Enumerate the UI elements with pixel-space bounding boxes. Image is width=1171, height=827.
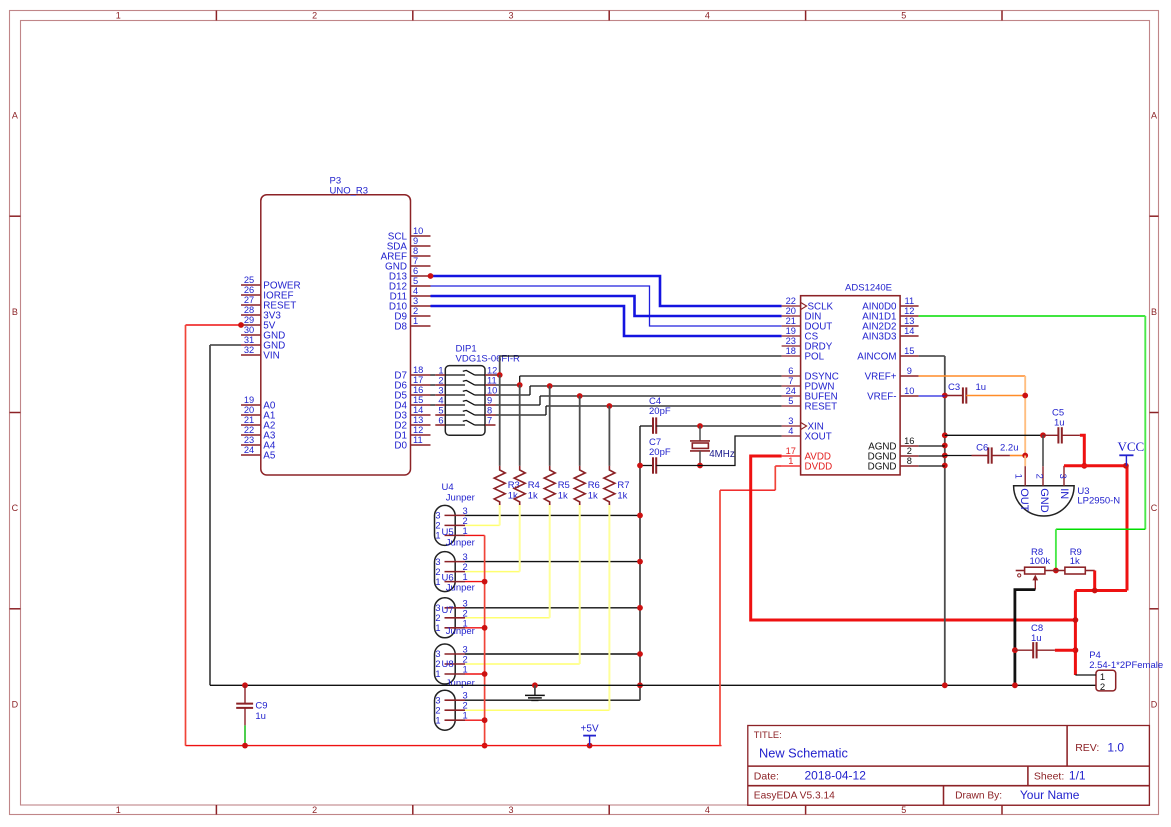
pin 25 POWER of P3	[241, 275, 301, 291]
svg-text:1.0: 1.0	[1107, 741, 1124, 755]
svg-text:1: 1	[435, 623, 440, 633]
pin 16 D5 of P3	[394, 385, 430, 401]
wire C6 to VREF+ rail (orange)	[1010, 455, 1025, 457]
svg-text:15: 15	[904, 346, 914, 356]
capacitor C7 20pF	[640, 437, 700, 474]
wire C3 to VREF+ rail (orange)	[966, 395, 1025, 397]
DIP switch DIP1 VDG1S-06FI-R body	[445, 343, 520, 435]
svg-text:2.2u: 2.2u	[1000, 443, 1019, 454]
svg-text:1k: 1k	[617, 491, 627, 502]
resistor R6 1k	[574, 396, 600, 506]
wire VREF- (blue)	[919, 395, 945, 397]
wire DIP1.10 to PDWN	[496, 386, 782, 395]
node C3 right junction	[1022, 393, 1028, 399]
svg-text:4: 4	[438, 396, 443, 406]
svg-text:D: D	[12, 700, 19, 710]
pin 15 AINCOM of U2	[857, 346, 918, 362]
node ground tap	[532, 682, 538, 688]
node 5V pin junction	[238, 322, 244, 328]
svg-text:Drawn By:: Drawn By:	[955, 791, 1002, 802]
pin 13 AIN2D2 of U2	[862, 316, 918, 332]
jumper U4 Junper	[435, 482, 475, 545]
wire U3 GND pin	[1042, 435, 1044, 466]
svg-text:2: 2	[907, 446, 912, 456]
wire GND vertical rail	[639, 426, 641, 700]
svg-text:20: 20	[244, 405, 254, 415]
svg-text:8: 8	[413, 246, 418, 256]
svg-text:8: 8	[907, 456, 912, 466]
resistor R5 1k	[544, 386, 570, 506]
svg-text:9: 9	[413, 236, 418, 246]
svg-text:LP2950-N: LP2950-N	[1077, 496, 1120, 507]
wire U6.2 to R5 (yellow)	[465, 505, 550, 618]
pin 26 IOREF of P3	[241, 285, 293, 301]
node R7 tap	[607, 403, 613, 409]
node wiper to GND bus	[1012, 682, 1018, 688]
svg-text:Junper: Junper	[446, 583, 475, 594]
svg-text:11: 11	[487, 376, 497, 386]
capacitor C4 20pF	[640, 396, 671, 434]
wire C4 to XIN	[656, 425, 781, 427]
resistor R4 1k	[514, 385, 540, 506]
node R6 tap	[577, 393, 583, 399]
wire U4.3 to GND rail	[465, 514, 640, 516]
svg-text:1: 1	[413, 316, 418, 326]
svg-text:2: 2	[463, 655, 468, 665]
ground symbol	[525, 685, 545, 700]
svg-text:C9: C9	[255, 701, 267, 712]
svg-text:2: 2	[312, 805, 317, 815]
svg-text:3: 3	[1058, 474, 1068, 479]
DIP1 switch pole 2-11	[430, 376, 496, 386]
wire U8.2 to R7 (yellow)	[465, 505, 609, 710]
svg-text:VCC: VCC	[1118, 439, 1145, 454]
svg-text:100k: 100k	[1030, 556, 1051, 567]
connector P4 2.54-1*2PFemale	[1089, 650, 1163, 693]
node +5V tap	[587, 743, 593, 749]
svg-text:A: A	[12, 111, 18, 121]
svg-text:3: 3	[463, 598, 468, 608]
pin 4 XOUT of U2	[782, 426, 832, 442]
svg-text:VREF+: VREF+	[865, 371, 897, 382]
svg-text:3: 3	[463, 552, 468, 562]
svg-text:10: 10	[413, 226, 423, 236]
svg-text:14: 14	[904, 326, 914, 336]
svg-text:3: 3	[435, 695, 440, 705]
wire C8 to VCC rail (thick red)	[1055, 649, 1076, 652]
capacitor C8 1u	[1015, 623, 1055, 658]
svg-text:4: 4	[705, 11, 710, 21]
node AVDD bus junction	[1073, 617, 1079, 623]
wire DGND2 to rail	[919, 455, 945, 457]
pin 18 POL of U2	[782, 346, 825, 362]
svg-text:26: 26	[244, 285, 254, 295]
svg-text:1u: 1u	[1031, 633, 1042, 644]
svg-text:15: 15	[413, 395, 423, 405]
node C8 left junction	[1012, 647, 1018, 653]
svg-text:R5: R5	[558, 480, 570, 491]
wire U5.2 to R4 (yellow)	[465, 505, 520, 572]
svg-text:DGND: DGND	[868, 461, 897, 472]
wire D11 to DIN (blue)	[431, 296, 782, 316]
svg-text:9: 9	[907, 366, 912, 376]
power symbol VCC	[1118, 439, 1145, 466]
svg-text:UNO_R3: UNO_R3	[330, 185, 369, 196]
DIP1 switch pole 3-10	[430, 386, 497, 396]
wire DIP1.8 to RESET	[496, 406, 782, 415]
svg-text:30: 30	[244, 325, 254, 335]
pin 30 GND of P3	[241, 325, 285, 341]
svg-text:1: 1	[788, 456, 793, 466]
svg-text:DVDD: DVDD	[805, 461, 833, 472]
node D13 junction	[428, 273, 434, 279]
wire R9 to VCC bus (thick red)	[1093, 571, 1096, 591]
svg-text:1: 1	[1014, 474, 1024, 479]
wire U4.2 to R3 (yellow)	[465, 505, 500, 525]
wire DIP1.9 to BUFEN	[496, 396, 782, 405]
svg-text:5: 5	[901, 11, 906, 21]
svg-text:1: 1	[116, 805, 121, 815]
svg-text:3: 3	[435, 603, 440, 613]
svg-text:18: 18	[413, 365, 423, 375]
svg-text:OUT: OUT	[1018, 488, 1030, 512]
pin 8 AREF of P3	[381, 246, 431, 262]
svg-text:XOUT: XOUT	[805, 431, 832, 442]
svg-text:12: 12	[487, 366, 497, 376]
svg-text:31: 31	[244, 335, 254, 345]
node C5/VCC junction	[1081, 463, 1087, 469]
pin 20 A1 of P3	[241, 405, 276, 421]
svg-text:16: 16	[413, 385, 423, 395]
svg-text:1: 1	[463, 572, 468, 582]
svg-text:13: 13	[904, 316, 914, 326]
svg-text:Your Name: Your Name	[1020, 788, 1080, 802]
wire C9 to +5V (green)	[244, 725, 246, 745]
wire D13 to SCLK (blue)	[431, 276, 782, 306]
svg-text:4: 4	[413, 286, 418, 296]
wire D10 to CS (blue)	[431, 306, 782, 336]
DIP1 switch pole 5-8	[435, 406, 495, 416]
node AGND junctions	[942, 393, 948, 399]
svg-text:2: 2	[463, 562, 468, 572]
svg-text:+5V: +5V	[581, 724, 599, 735]
pin 9 VREF+ of U2	[865, 366, 919, 382]
svg-text:1: 1	[435, 577, 440, 587]
wire U7.3 to GND rail	[465, 653, 640, 655]
svg-text:C: C	[12, 503, 19, 513]
svg-text:1: 1	[463, 526, 468, 536]
svg-text:3: 3	[463, 506, 468, 516]
node GND rail junction	[637, 513, 643, 519]
svg-text:3: 3	[435, 649, 440, 659]
svg-text:3: 3	[508, 805, 513, 815]
pin 1 D8 of P3	[394, 316, 430, 332]
svg-text:C: C	[1151, 503, 1158, 513]
wire DVDD to +5V (red)	[720, 466, 782, 746]
wire U7.1 stub (red)	[465, 673, 485, 675]
jumper U5 Junper	[435, 527, 475, 592]
svg-text:Junper: Junper	[446, 537, 475, 548]
wire U8.1 stub (red)	[465, 719, 485, 721]
svg-text:2: 2	[435, 567, 440, 577]
pin 22 A3 of P3	[241, 425, 276, 441]
pin 6 DSYNC of U2	[782, 366, 839, 382]
svg-text:2: 2	[463, 516, 468, 526]
svg-text:23: 23	[786, 336, 796, 346]
pin 27 RESET of P3	[241, 295, 296, 311]
pin 18 D7 of P3	[394, 365, 430, 381]
svg-text:3: 3	[463, 691, 468, 701]
node red chain junction	[482, 579, 488, 585]
svg-text:2.54-1*2PFemale: 2.54-1*2PFemale	[1089, 660, 1163, 671]
pin 1 DVDD of U2	[782, 456, 833, 472]
svg-text:19: 19	[244, 395, 254, 405]
node GND rail to bottom bus	[637, 682, 643, 688]
svg-text:VDG1S-06FI-R: VDG1S-06FI-R	[456, 353, 521, 364]
svg-text:2: 2	[435, 521, 440, 531]
svg-text:New Schematic: New Schematic	[759, 745, 848, 760]
svg-text:3: 3	[435, 557, 440, 567]
node VCC corner	[1123, 463, 1129, 469]
node red chain junction	[482, 717, 488, 723]
svg-text:2: 2	[438, 376, 443, 386]
pin 12 D1 of P3	[394, 425, 430, 441]
pin 21 DOUT of U2	[782, 316, 833, 332]
svg-text:5: 5	[788, 396, 793, 406]
svg-text:1u: 1u	[1054, 418, 1065, 429]
svg-text:B: B	[12, 307, 18, 317]
svg-text:4: 4	[705, 805, 710, 815]
power symbol +5V	[581, 724, 599, 746]
svg-text:10: 10	[487, 386, 497, 396]
pin 5 RESET of U2	[782, 396, 838, 412]
wire U4.1 to +5V rail (red)	[465, 535, 485, 745]
wire XOUT to crystal	[700, 436, 782, 466]
svg-text:1k: 1k	[588, 491, 598, 502]
wire AVDD rail (thick red)	[751, 456, 1076, 620]
svg-text:Junper: Junper	[446, 678, 475, 689]
svg-text:2: 2	[435, 659, 440, 669]
svg-text:28: 28	[244, 305, 254, 315]
pin 20 DIN of U2	[782, 306, 822, 322]
node R9 bus junction	[1092, 588, 1098, 594]
svg-text:3: 3	[413, 296, 418, 306]
svg-text:2: 2	[463, 701, 468, 711]
pin 10 SCL of P3	[388, 226, 431, 242]
svg-text:2: 2	[435, 705, 440, 715]
pin 3 D10 of P3	[389, 296, 431, 312]
svg-text:D0: D0	[394, 440, 407, 451]
svg-text:U7: U7	[442, 605, 454, 616]
pin 7 GND of P3	[385, 256, 430, 272]
pin 19 CS of U2	[782, 326, 819, 342]
svg-text:R4: R4	[528, 480, 540, 491]
pin 2 DGND of U2	[868, 446, 919, 462]
wire P4.1 to VCC rail	[1075, 674, 1096, 676]
pin 4 D11 of P3	[390, 286, 431, 302]
capacitor C9 1u	[236, 685, 267, 725]
svg-text:5: 5	[438, 406, 443, 416]
svg-text:1: 1	[438, 366, 443, 376]
pin 12 AIN1D1 of U2	[862, 306, 918, 322]
node R4 tap	[517, 382, 523, 388]
svg-text:1k: 1k	[558, 491, 568, 502]
pin 23 A4 of P3	[241, 435, 276, 451]
svg-text:RESET: RESET	[805, 401, 838, 412]
svg-text:VREF-: VREF-	[867, 391, 896, 402]
wire C5 net (black)	[945, 434, 1043, 436]
wire AINCOM to ground rail	[919, 356, 945, 685]
svg-text:32: 32	[244, 345, 254, 355]
svg-text:2: 2	[1100, 682, 1105, 693]
svg-text:12: 12	[413, 425, 423, 435]
svg-text:REV:: REV:	[1075, 742, 1099, 754]
svg-text:4: 4	[788, 426, 793, 436]
svg-text:11: 11	[413, 435, 423, 445]
svg-text:1: 1	[116, 11, 121, 21]
resistor R9 1k	[1045, 547, 1095, 574]
svg-text:16: 16	[904, 436, 914, 446]
svg-text:17: 17	[786, 446, 796, 456]
svg-text:D8: D8	[394, 321, 407, 332]
svg-text:9: 9	[487, 396, 492, 406]
svg-text:19: 19	[786, 326, 796, 336]
pin 17 AVDD of U2	[782, 446, 831, 462]
jumper U8 Junper	[435, 659, 475, 730]
wire VCC bus (thick red)	[1064, 466, 1127, 675]
wire DGND8 to rail	[919, 465, 945, 467]
svg-text:7: 7	[487, 416, 492, 426]
node red chain to +5V bus	[482, 743, 488, 749]
node C9 bottom	[242, 743, 248, 749]
svg-text:Date:: Date:	[754, 770, 779, 782]
node C7 left junction	[637, 463, 643, 469]
wire C5 to VCC (thick red)	[1080, 435, 1084, 466]
svg-text:Sheet:: Sheet:	[1034, 770, 1064, 782]
svg-text:R6: R6	[588, 480, 600, 491]
svg-text:29: 29	[244, 315, 254, 325]
svg-text:3: 3	[508, 11, 513, 21]
jumper U6 Junper	[435, 572, 475, 638]
crystal Y1 4MHz	[690, 426, 735, 466]
node GND rail junction	[637, 559, 643, 565]
wire DIP1.12 to POL	[496, 356, 782, 375]
svg-text:22: 22	[244, 425, 254, 435]
node C5 left junction	[1040, 432, 1046, 438]
pin 3 XIN of U2	[782, 416, 824, 432]
node crystal bottom	[697, 463, 703, 469]
svg-text:1: 1	[463, 665, 468, 675]
svg-text:C6: C6	[976, 443, 988, 454]
svg-text:20pF: 20pF	[649, 447, 671, 458]
pin 5 D12 of P3	[389, 276, 431, 292]
pin 17 D6 of P3	[394, 375, 430, 391]
svg-text:25: 25	[244, 275, 254, 285]
pin 23 DRDY of U2	[782, 336, 833, 352]
pin 13 D2 of P3	[394, 415, 430, 431]
svg-text:1/1: 1/1	[1069, 768, 1086, 782]
svg-text:AINCOM: AINCOM	[857, 351, 896, 362]
svg-text:2018-04-12: 2018-04-12	[805, 768, 867, 782]
svg-text:2: 2	[1035, 474, 1045, 479]
resistor R7 1k	[604, 406, 630, 506]
wire AGND to rail	[919, 445, 945, 447]
jumper U7 Junper	[435, 605, 475, 684]
node R5 tap	[547, 383, 553, 389]
node crystal top	[697, 423, 703, 429]
svg-text:D: D	[1151, 700, 1158, 710]
svg-text:1: 1	[435, 669, 440, 679]
svg-text:17: 17	[413, 375, 423, 385]
node C8 bus junction	[1073, 647, 1079, 653]
wire GND from P3 (black)	[210, 345, 1096, 685]
svg-text:4MHz: 4MHz	[709, 449, 735, 460]
node C6 right junction	[1022, 453, 1028, 459]
svg-text:A: A	[1151, 111, 1157, 121]
pin 2 D9 of P3	[394, 306, 430, 322]
capacitor C5 1u	[1043, 408, 1080, 444]
pin 8 DGND of U2	[868, 456, 919, 472]
svg-text:5: 5	[413, 276, 418, 286]
svg-text:24: 24	[786, 386, 796, 396]
svg-text:R7: R7	[617, 480, 629, 491]
pin 10 VREF- of U2	[867, 386, 919, 402]
node GND rail junction	[637, 651, 643, 657]
svg-text:18: 18	[786, 346, 796, 356]
svg-text:1u: 1u	[976, 382, 987, 393]
svg-text:U8: U8	[442, 659, 454, 670]
wire VREF+ (orange)	[919, 376, 1026, 456]
wire R8 wiper to GND (thick black)	[1015, 590, 1035, 686]
wire U5.3 to GND rail	[465, 561, 640, 563]
DIP1 switch pole 1-12	[430, 366, 497, 376]
svg-text:ADS1240E: ADS1240E	[845, 283, 892, 294]
svg-text:20: 20	[786, 306, 796, 316]
capacitor C6 2.2u	[945, 443, 1019, 464]
svg-text:Junper: Junper	[446, 492, 475, 503]
pin 31 GND of P3	[241, 335, 285, 351]
svg-text:IN: IN	[1058, 488, 1070, 499]
title block	[748, 726, 1150, 806]
node R3 tap	[497, 372, 503, 378]
wire U7.2 to R6 (yellow)	[465, 505, 580, 664]
wire U3 OUT pin feed (pale orange)	[1024, 456, 1026, 467]
svg-text:21: 21	[786, 316, 796, 326]
svg-text:22: 22	[786, 296, 796, 306]
svg-text:POL: POL	[805, 351, 825, 362]
connector P3 UNO_R3 body	[261, 176, 411, 476]
svg-text:27: 27	[244, 295, 254, 305]
svg-text:23: 23	[244, 435, 254, 445]
svg-text:2: 2	[435, 613, 440, 623]
node GND rail junction	[637, 605, 643, 611]
svg-text:1: 1	[463, 711, 468, 721]
svg-text:20pF: 20pF	[649, 406, 671, 417]
pin 32 VIN of P3	[241, 345, 280, 361]
pin 24 BUFEN of U2	[782, 386, 838, 402]
svg-text:14: 14	[413, 405, 423, 415]
pin 15 D4 of P3	[394, 395, 430, 411]
svg-text:2: 2	[312, 11, 317, 21]
svg-text:3: 3	[788, 416, 793, 426]
svg-text:EasyEDA V5.3.14: EasyEDA V5.3.14	[754, 791, 835, 802]
node red chain junction	[482, 671, 488, 677]
potentiometer R8 100k	[1016, 547, 1051, 590]
wire U6.1 stub (red)	[465, 627, 485, 629]
svg-text:AIN3D3: AIN3D3	[862, 331, 897, 342]
svg-text:6: 6	[438, 416, 443, 426]
pin 9 SDA of P3	[387, 236, 431, 252]
